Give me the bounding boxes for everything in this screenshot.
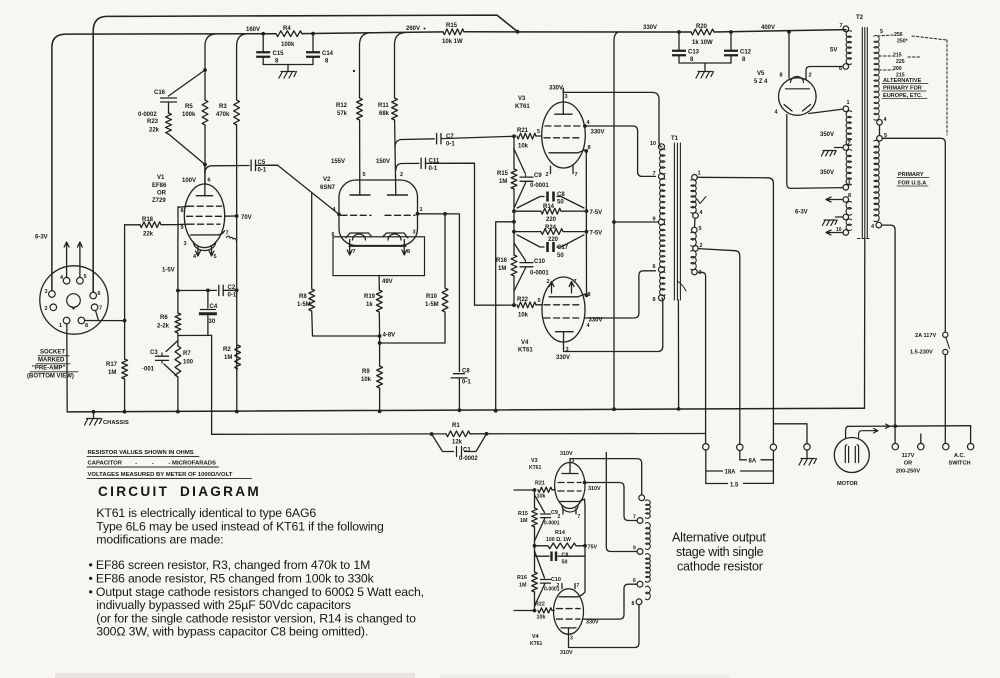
node junction (261, 32, 265, 36)
T2 5V coil (846, 31, 851, 65)
label 18A (725, 470, 737, 476)
wire V1 screen (225, 215, 237, 217)
AC terminal tap (918, 434, 924, 450)
alt OPT coil a (646, 500, 651, 518)
label R1 value (452, 440, 463, 446)
label R15 value (442, 39, 463, 45)
alt V4 screen dashes (557, 618, 581, 620)
label 100V (182, 178, 196, 184)
svg-text:3: 3 (413, 230, 416, 236)
resistor R4 (276, 31, 302, 37)
alt OPT terminal b (633, 515, 643, 524)
wire R9 top (379, 336, 381, 366)
label R24 value (548, 237, 559, 243)
resistor R20 (691, 29, 714, 35)
label V1 type (152, 183, 167, 189)
alt V4 cathode (559, 592, 585, 597)
T1 terminal 10 (650, 141, 665, 150)
wire C2 line (178, 289, 217, 291)
svg-text:470k: 470k (216, 112, 230, 118)
node junction (443, 212, 447, 216)
svg-text:A.C.: A.C. (954, 453, 966, 459)
heater arrow pin5 (78, 242, 83, 277)
wire C2 to screen node (223, 289, 237, 291)
scan smudge bottom edge (55, 673, 415, 678)
label OR (904, 461, 912, 467)
svg-text:R14: R14 (543, 204, 555, 210)
alt rail mid (534, 527, 536, 546)
T1 secondary coil a (691, 180, 696, 214)
T2 terminal 1 (843, 100, 850, 112)
svg-text:0-1: 0-1 (462, 380, 471, 386)
alt capacitor C10 (535, 551, 551, 606)
svg-text:• EF86 screen resistor, R3, ch: • EF86 screen resistor, R3, changed from… (89, 558, 371, 572)
wire R22 to V4 grid (536, 304, 542, 306)
label R2 value (224, 355, 232, 361)
alt OPT terminal d (633, 578, 643, 587)
svg-text:1: 1 (698, 171, 701, 177)
alt OPT coil c (646, 554, 651, 582)
alt label 310V screen (588, 486, 601, 492)
svg-text:C13: C13 (688, 50, 700, 56)
svg-text:Type 6L6 may be used instead o: Type 6L6 may be used instead of KT61 if … (96, 519, 384, 533)
resistor R9 (377, 366, 383, 388)
svg-text:3: 3 (570, 636, 573, 642)
svg-text:5: 5 (699, 226, 702, 232)
ground near C15 (279, 72, 297, 79)
wire R3 down to bus (236, 125, 238, 411)
label SWITCH (948, 461, 970, 467)
label R14 value (546, 217, 557, 223)
T2 350V coil a (846, 111, 851, 146)
wire rail R15 top (513, 136, 515, 169)
speaker terminal c (770, 444, 776, 450)
svg-text:3: 3 (848, 181, 851, 187)
label R19 value (366, 302, 373, 308)
alt label V4 pin3 (570, 636, 573, 642)
svg-text:330V: 330V (586, 620, 599, 626)
wire T2-2 ground (835, 147, 844, 149)
alt label R15 value (520, 518, 528, 524)
alt label 310V top (560, 451, 573, 457)
alt V4 plate bar (561, 628, 576, 634)
svg-text:R8: R8 (299, 294, 307, 300)
wire T2-6 to V5 (806, 67, 843, 80)
svg-text:1: 1 (420, 207, 423, 213)
svg-text:50: 50 (557, 200, 564, 206)
alt label V3 pin2 (558, 514, 561, 520)
node junction (729, 30, 733, 34)
label MOTOR (837, 481, 858, 487)
svg-text:7: 7 (653, 171, 656, 177)
label 70V (241, 215, 252, 221)
T1 secondary coil b (691, 232, 696, 246)
resistor R14 (514, 208, 587, 214)
svg-text:1.5: 1.5 (730, 483, 739, 489)
resistor R7 (175, 346, 181, 377)
label V2 pin2 (400, 172, 403, 178)
svg-text:10k 1W: 10k 1W (442, 39, 463, 45)
svg-text:5: 5 (84, 274, 87, 280)
label R15 grid value (499, 179, 507, 185)
svg-text:R6: R6 (160, 315, 168, 321)
svg-text:• EF86 anode resistor, R5 chan: • EF86 anode resistor, R5 changed from 1… (89, 572, 375, 586)
svg-text:R1: R1 (452, 423, 460, 429)
label R10 value (425, 302, 439, 308)
svg-text:6: 6 (633, 578, 636, 584)
node junction (512, 134, 516, 138)
resistor R22 (517, 302, 536, 308)
alt label C8 value (562, 560, 568, 566)
wire R11 elbow (395, 33, 405, 45)
svg-text:KT61: KT61 (518, 348, 533, 354)
wire alt R21 to grid (552, 489, 555, 491)
svg-text:MOTOR: MOTOR (837, 481, 858, 487)
table row 2 (87, 460, 219, 467)
resistor R23 (166, 113, 172, 134)
label R3 (219, 104, 227, 110)
svg-text:160V: 160V (246, 27, 260, 33)
wire pin8 to grid (85, 320, 125, 322)
alt V3 dome (562, 506, 578, 513)
switch contact a (943, 332, 948, 337)
wire T2 frame down (864, 238, 866, 409)
svg-text:0-1: 0-1 (429, 166, 438, 172)
check mark artifact (697, 197, 706, 204)
svg-text:T2: T2 (856, 15, 864, 21)
label 7-5V R24 (590, 231, 603, 237)
label V1 (157, 175, 165, 181)
label 6-3V T2 (795, 210, 808, 216)
wire switch down (944, 355, 946, 444)
label AC (954, 453, 966, 459)
label R12 value (337, 111, 348, 117)
svg-text:400V: 400V (761, 25, 775, 31)
svg-text:7: 7 (633, 515, 636, 521)
V1 plate bar (196, 195, 212, 197)
socket pin 5 (77, 274, 87, 284)
wire R7 top (177, 341, 179, 347)
wire R3 elbow (237, 34, 247, 46)
svg-text:100 Ω. 1W: 100 Ω. 1W (546, 537, 571, 543)
label C1 value (459, 456, 478, 462)
label C2 (228, 285, 236, 291)
node junction (585, 209, 589, 213)
node 400V (761, 25, 775, 31)
svg-text:R15: R15 (497, 171, 509, 177)
svg-text:5: 5 (537, 129, 540, 135)
capacitor C3 (156, 341, 178, 378)
wire alt V3 screen (585, 483, 637, 521)
label EUROPE ETC (882, 93, 927, 99)
svg-text:4-8V: 4-8V (383, 333, 396, 339)
alt label 330V screen (586, 620, 599, 626)
svg-text:100k: 100k (281, 42, 295, 48)
T1 terminal 8 (653, 295, 665, 303)
resistor R16 grid (511, 255, 517, 276)
ground speaker (799, 459, 817, 466)
T1 terminal 5 (692, 226, 702, 233)
tube V5 5Z4 (779, 78, 817, 116)
label R12 (336, 103, 348, 109)
wire cap join (679, 63, 731, 71)
node junction (512, 230, 516, 234)
label tap 225 (896, 59, 905, 65)
svg-text:1k: 1k (366, 302, 373, 308)
svg-text:3: 3 (699, 270, 702, 276)
svg-text:MARKED: MARKED (38, 358, 65, 364)
wire tap 18A left (706, 470, 723, 472)
wire AC bus (847, 425, 971, 428)
label MARKED (36, 358, 70, 364)
ground T2 heater CT (822, 220, 837, 226)
svg-text:R18: R18 (142, 217, 154, 223)
svg-text:3: 3 (565, 94, 568, 100)
T2 terminal 9 (843, 214, 849, 220)
alt OPT coil d (646, 586, 651, 600)
capacitor C5 (251, 160, 255, 170)
label V4 (521, 340, 529, 346)
svg-text:modifications are made:: modifications are made: (96, 533, 223, 547)
label V2 pin4 (333, 207, 337, 213)
svg-text:KT61: KT61 (515, 104, 530, 110)
label R14 (543, 204, 555, 210)
label R4 (283, 26, 291, 32)
svg-text:R3: R3 (219, 104, 227, 110)
label C12 (740, 50, 752, 56)
node junction (512, 303, 516, 307)
socket body (40, 266, 108, 334)
V1 heater squiggle (227, 236, 237, 242)
capacitor C2 (219, 285, 223, 295)
output terminal d (804, 444, 810, 450)
label V1 alt (152, 198, 166, 204)
node 330V (643, 25, 657, 31)
T2 terminal 2 (843, 141, 851, 151)
node junction (533, 544, 537, 548)
label FOR USA (897, 181, 928, 187)
node junction (612, 220, 658, 224)
node junction (516, 30, 520, 34)
socket pin 4 (60, 275, 70, 284)
svg-text:R4: R4 (283, 26, 291, 32)
svg-text:V5: V5 (757, 71, 765, 77)
node junction (176, 410, 180, 414)
label SOCKET (38, 350, 69, 356)
heater arrow T2 a (826, 197, 843, 202)
alt input stub b (514, 610, 535, 612)
label V3 type (515, 104, 530, 110)
T2 core (862, 28, 867, 238)
label PRE-AMP (30, 366, 78, 372)
wire C4 to junction (207, 316, 209, 336)
svg-text:6: 6 (839, 66, 842, 72)
wire alt center tap (606, 452, 637, 551)
alt V3 cathode (560, 499, 585, 506)
label R16 grid (496, 258, 508, 264)
resistor R11 (392, 45, 398, 120)
wire cap join (263, 65, 313, 72)
label V3 pin5 (537, 129, 540, 135)
svg-text:2-2k: 2-2k (157, 324, 170, 330)
alt label C9 value (544, 521, 560, 527)
svg-text:(BOTTOM VIEW): (BOTTOM VIEW) (27, 374, 74, 380)
svg-text:T1: T1 (671, 136, 679, 142)
node junction (430, 432, 434, 436)
heater arrow pin4 (64, 242, 69, 277)
node junction (203, 163, 207, 167)
node junction (485, 432, 489, 436)
svg-text:7: 7 (840, 23, 843, 29)
label V2 pin3 (413, 230, 416, 236)
resistor R1 (446, 431, 470, 437)
svg-text:2: 2 (809, 73, 812, 79)
wire ground tap (496, 222, 514, 411)
svg-text:10k: 10k (518, 144, 529, 150)
label V3 pin2 (546, 172, 549, 178)
alt label R21 (535, 481, 545, 487)
svg-text:C15: C15 (273, 51, 285, 57)
svg-text:70V: 70V (241, 215, 252, 221)
svg-text:2: 2 (546, 172, 549, 178)
svg-text:10k: 10k (537, 494, 546, 500)
table row 1 (87, 450, 199, 457)
svg-text:C3: C3 (150, 350, 158, 356)
motor body (834, 438, 869, 473)
label pin5 (214, 254, 217, 260)
heater arrow T2 b (826, 230, 843, 235)
svg-text:117V: 117V (902, 453, 915, 459)
label R8 (299, 294, 307, 300)
AC terminal switch (943, 443, 949, 449)
label C8 bypass (557, 192, 565, 198)
label V4 pin3 (566, 347, 569, 353)
svg-text:C10: C10 (534, 259, 546, 265)
wire R5 to V1 anode (204, 125, 206, 184)
svg-text:8: 8 (181, 208, 184, 214)
wire rail bottom (513, 276, 515, 305)
svg-text:200-250V: 200-250V (896, 469, 921, 475)
svg-text:KT61: KT61 (529, 465, 541, 471)
label R1 (452, 423, 460, 429)
wire R7 to bus (177, 377, 179, 412)
label R17 (106, 362, 118, 368)
svg-text:V3: V3 (518, 96, 526, 102)
node junction (533, 609, 537, 613)
V2 cathode right (383, 233, 408, 240)
svg-text:1M: 1M (499, 179, 507, 185)
svg-text:R16: R16 (496, 258, 508, 264)
label C9 (534, 173, 542, 179)
alt OPT coil b (646, 523, 651, 550)
T2 core base dashes (858, 238, 872, 240)
svg-text:7: 7 (574, 279, 577, 285)
svg-text:R17: R17 (106, 362, 118, 368)
svg-text:10k: 10k (537, 615, 546, 621)
V4 screen dashes (544, 317, 582, 319)
label V3 pin7 (575, 172, 578, 178)
svg-text:18A: 18A (725, 470, 737, 476)
label 350V b (820, 170, 834, 176)
T1 terminal 2 (693, 243, 703, 251)
svg-text:DIAGRAM: DIAGRAM (180, 484, 261, 499)
svg-text:CAPACITOR - -: CAPACITOR - - - MICROFARADS (88, 460, 216, 466)
T1 core tail (678, 281, 687, 291)
resistor R15 grid (511, 169, 517, 189)
chassis ground (85, 419, 103, 426)
svg-text:R11: R11 (378, 103, 389, 109)
T2 6.3V coil b (846, 219, 851, 230)
wire chassis stem (93, 412, 95, 418)
svg-text:1: 1 (847, 100, 850, 106)
alt resistor R15 (532, 508, 538, 527)
node junction (176, 289, 180, 293)
svg-text:0-1: 0-1 (258, 168, 267, 174)
node junction (235, 288, 239, 292)
alt OPT terminal e (632, 599, 642, 607)
label R18 (142, 217, 154, 223)
svg-text:0-0001: 0-0001 (530, 183, 549, 189)
capacitor C14 (306, 34, 320, 65)
wire alt V4 anode to OPT (569, 605, 640, 648)
T1 terminal 6 (653, 264, 665, 273)
node junction (458, 408, 462, 412)
label tap 200 (893, 66, 902, 72)
node junction (378, 409, 382, 413)
wire V3 anode to T1-10 (563, 88, 661, 147)
wire C5 to V2 grid (256, 165, 340, 214)
alt input stub a (514, 489, 535, 491)
svg-text:0-0001: 0-0001 (544, 521, 560, 527)
label tap 256 (894, 32, 903, 38)
AC terminal end (967, 426, 973, 450)
capacitor C17 (517, 235, 584, 252)
svg-text:V1: V1 (157, 175, 165, 181)
node junction (612, 407, 616, 411)
label R20 (696, 24, 708, 30)
node junction (378, 341, 382, 345)
wire T2 taps link (879, 125, 881, 135)
svg-text:7: 7 (353, 249, 356, 255)
svg-text:Alternative output: Alternative output (672, 531, 766, 545)
svg-text:2: 2 (547, 279, 550, 285)
wire tap 1.5 right (744, 471, 774, 483)
label CHASSIS (103, 420, 129, 426)
V4 cathode (549, 294, 585, 297)
wire alt R22 to grid (552, 609, 554, 611)
label V2 pin8 (407, 249, 410, 255)
svg-text:EF86: EF86 (152, 183, 167, 189)
scan speck (353, 28, 426, 73)
svg-text:7: 7 (99, 306, 102, 312)
svg-text:C8: C8 (562, 553, 569, 559)
label pin6 (208, 178, 211, 184)
capacitor C8 coupling (451, 374, 467, 411)
svg-text:R24: R24 (545, 225, 557, 231)
svg-text:330V: 330V (591, 130, 605, 136)
label C13 (688, 50, 700, 56)
svg-text:V3: V3 (531, 458, 538, 464)
node junction (494, 409, 498, 413)
node junction (512, 303, 516, 307)
node junction (512, 220, 516, 224)
alt capacitor C8 (535, 552, 586, 562)
svg-text:155V: 155V (331, 159, 345, 165)
svg-text:22k: 22k (149, 128, 160, 134)
svg-text:R12: R12 (336, 103, 348, 109)
label C8 bypass value (557, 200, 564, 206)
T2 terminal 10 (836, 227, 849, 235)
